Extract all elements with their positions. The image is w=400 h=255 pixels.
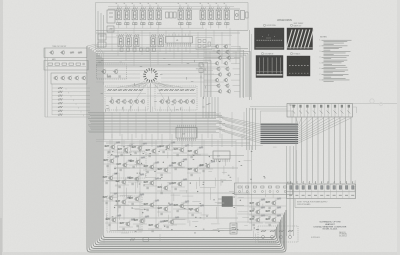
transistor Q48 bbox=[216, 67, 220, 72]
indicator lamp PL2 bbox=[241, 11, 249, 20]
wire bbox=[247, 108, 256, 150]
transistor Q70 bbox=[143, 162, 159, 174]
wire bbox=[237, 198, 286, 230]
filter block box bbox=[107, 196, 142, 232]
wire bbox=[112, 134, 242, 147]
decoder block box B bbox=[155, 86, 197, 110]
transistor Q7 bbox=[179, 20, 183, 28]
transistor Q47 bbox=[223, 61, 227, 66]
display digit DS4 bbox=[140, 7, 146, 20]
transistor Q89 bbox=[119, 219, 135, 231]
wire bbox=[204, 62, 240, 64]
wire bbox=[203, 97, 218, 118]
wire bbox=[121, 47, 186, 52]
label TYPICAL bbox=[289, 104, 297, 107]
transistor Q65 bbox=[173, 145, 189, 157]
transistor Q6 bbox=[157, 20, 161, 28]
wire bbox=[106, 37, 119, 44]
transistor Q9 bbox=[201, 20, 205, 28]
wire bbox=[96, 3, 249, 51]
wire bbox=[117, 83, 183, 113]
resistor R11 bbox=[113, 89, 117, 91]
oscillogram photo C bbox=[256, 56, 283, 78]
wire bbox=[250, 30, 252, 100]
wire bbox=[204, 85, 240, 87]
transformer T1 bbox=[218, 197, 233, 207]
transistor Q83 bbox=[128, 194, 144, 206]
transistor Q68 bbox=[116, 160, 132, 172]
junction boxes bbox=[199, 63, 203, 73]
photo label B bbox=[290, 23, 303, 27]
transistor Q95 bbox=[249, 207, 265, 219]
transistor array Q12-Q17 bbox=[120, 48, 156, 51]
wire bbox=[96, 45, 231, 83]
transistor Q44 bbox=[217, 55, 221, 60]
thyristor Q29 bbox=[178, 99, 183, 104]
transistor Q18 bbox=[101, 69, 106, 74]
transistor Q43 bbox=[225, 50, 229, 55]
resistor R76 bbox=[76, 63, 81, 65]
transistor Q90 bbox=[133, 216, 149, 228]
transistor Q3 bbox=[133, 20, 137, 28]
label vertical note bbox=[354, 179, 357, 192]
transistor Q42 bbox=[216, 50, 220, 55]
wire bbox=[204, 46, 240, 48]
transistor Q51 bbox=[60, 50, 64, 55]
resistor R75 bbox=[69, 63, 74, 65]
transistor Q53 bbox=[223, 78, 227, 83]
display digit DS1 bbox=[116, 7, 122, 20]
wiring harness bundle bbox=[87, 46, 286, 252]
thyristor Q25 bbox=[140, 99, 145, 104]
display digit DS10 bbox=[208, 7, 214, 20]
decoder block box A bbox=[105, 86, 148, 110]
resistor R13 bbox=[123, 89, 127, 91]
transistor Q81 bbox=[102, 193, 118, 205]
wire bbox=[240, 46, 244, 98]
transistor Q91 bbox=[148, 221, 164, 233]
audio block box 3 bbox=[51, 73, 87, 84]
transistor Q55 bbox=[225, 83, 229, 88]
thyristor Q20 bbox=[109, 99, 114, 104]
wire bbox=[96, 52, 251, 98]
wire bbox=[204, 79, 240, 81]
wire bbox=[107, 145, 277, 231]
transistor Q97 bbox=[249, 215, 265, 227]
smudge mark bbox=[370, 99, 383, 106]
label WAVEFORMS bbox=[277, 19, 292, 22]
transistor Q80 bbox=[171, 179, 187, 191]
wire bbox=[106, 140, 250, 232]
counter IC U13 bbox=[98, 34, 106, 40]
resistor R15 bbox=[134, 89, 138, 91]
transistor Q93 bbox=[249, 199, 265, 211]
transistor Q54 bbox=[216, 83, 220, 88]
wire bbox=[96, 32, 240, 34]
transistor Q11 bbox=[217, 20, 221, 28]
transistor Q94 bbox=[265, 198, 281, 210]
thyristor Q31 bbox=[190, 99, 195, 104]
wire bbox=[110, 28, 232, 35]
transistor Q87 bbox=[188, 205, 204, 217]
wire bbox=[204, 68, 240, 70]
transistor Q55 bbox=[74, 76, 79, 81]
photo label A bbox=[263, 24, 276, 27]
thyristor Q28 bbox=[171, 99, 176, 104]
wire bbox=[106, 93, 196, 95]
transistor Q67 bbox=[103, 156, 119, 168]
transistor Q73 bbox=[187, 165, 203, 177]
transistor Q54 bbox=[67, 76, 72, 81]
transistor Q12 bbox=[225, 20, 229, 28]
thyristor Q26 bbox=[159, 99, 164, 104]
oscillator block box bbox=[97, 62, 127, 79]
counter IC U14 bbox=[98, 42, 106, 47]
wire bbox=[204, 57, 240, 59]
transistor Q71 bbox=[157, 165, 173, 177]
resistor R74 bbox=[62, 63, 67, 65]
value labels bbox=[112, 149, 266, 233]
display digit DS12 bbox=[224, 7, 230, 20]
wire bbox=[108, 7, 240, 10]
display digit DS16 bbox=[151, 34, 157, 47]
wire bbox=[204, 74, 240, 76]
transistor Q88 bbox=[105, 215, 121, 227]
transistor Q19 bbox=[113, 69, 118, 74]
notes text block bbox=[320, 37, 352, 82]
resistor R25 bbox=[185, 89, 189, 91]
transistor Q75 bbox=[102, 173, 118, 185]
component stubs bbox=[100, 59, 210, 112]
wire bbox=[106, 88, 196, 97]
wire bbox=[96, 140, 252, 142]
wire bbox=[87, 44, 104, 58]
transistor Q49 bbox=[225, 67, 229, 72]
transistor Q85 bbox=[157, 204, 173, 216]
transistor Q10 bbox=[209, 20, 213, 28]
resistor R12 bbox=[118, 89, 122, 91]
node labels top row bbox=[116, 3, 227, 9]
resistor R20 bbox=[159, 89, 163, 91]
transistor Q82 bbox=[115, 197, 131, 209]
oscillogram photo A bbox=[255, 28, 285, 50]
transistor Q52 bbox=[53, 76, 58, 81]
display digit DS8 bbox=[186, 7, 192, 20]
oscillogram photo D bbox=[287, 56, 310, 76]
integrator block box bbox=[108, 152, 146, 178]
note text line bbox=[297, 200, 328, 205]
wire bbox=[110, 143, 268, 244]
wire bbox=[204, 48, 210, 97]
transistor Q84 bbox=[143, 200, 159, 212]
resistor R16 bbox=[139, 89, 143, 91]
display digit DS5 bbox=[148, 7, 154, 20]
transistor Q92 bbox=[163, 217, 179, 229]
title text bbox=[314, 221, 347, 231]
thyristor Q24 bbox=[134, 99, 139, 104]
transistor Q66 bbox=[187, 147, 203, 159]
display digit DS9 bbox=[200, 7, 206, 20]
resistor R24 bbox=[180, 89, 184, 91]
transistor Q40 bbox=[214, 44, 218, 49]
wire bbox=[96, 49, 248, 51]
transistor Q62 bbox=[131, 143, 147, 155]
terminal strip TS1 bbox=[287, 181, 356, 199]
wire bbox=[204, 51, 240, 53]
display digit DS14 bbox=[126, 34, 132, 47]
wire bbox=[96, 30, 248, 32]
resistor R1 bbox=[107, 76, 111, 78]
display digit DS13 bbox=[118, 34, 124, 47]
capacitor C1 bbox=[107, 26, 114, 32]
transistor Q76 bbox=[115, 177, 131, 189]
display digit DS17 bbox=[158, 34, 164, 47]
wire bbox=[98, 11, 104, 48]
display digit DS6 bbox=[156, 7, 162, 20]
transistor Q2 bbox=[125, 20, 129, 28]
transistor Q4 bbox=[141, 20, 145, 28]
title block small text bbox=[339, 231, 347, 238]
display digit DS2 bbox=[124, 7, 130, 20]
wire bbox=[132, 45, 168, 112]
resistor R22 bbox=[169, 89, 173, 91]
thyristor Q21 bbox=[115, 99, 120, 104]
display digit DS15 bbox=[134, 34, 140, 47]
junction dots bbox=[111, 146, 254, 230]
transistor Q56 bbox=[217, 89, 221, 94]
resistor R23 bbox=[175, 89, 179, 91]
wire bbox=[45, 116, 90, 118]
transistor Q98 bbox=[265, 215, 281, 227]
wire bbox=[353, 103, 397, 105]
audio block box 2 bbox=[44, 61, 88, 71]
wire bbox=[109, 107, 189, 112]
IC U2 bbox=[176, 125, 197, 142]
resistor ladder rows bbox=[52, 87, 90, 116]
transistor Q56 bbox=[81, 76, 86, 81]
transistor Q46 bbox=[214, 61, 218, 66]
resistor R73 bbox=[55, 63, 60, 65]
wire bbox=[104, 112, 244, 140]
wire bbox=[104, 234, 160, 243]
resistor R21 bbox=[164, 89, 168, 91]
transistor Q63 bbox=[145, 146, 161, 158]
transistor Q8 bbox=[187, 20, 191, 28]
transistor Q79 bbox=[157, 183, 173, 195]
display digit DS3 bbox=[132, 7, 138, 20]
resistor R71 bbox=[78, 52, 82, 54]
photo label D bbox=[290, 53, 300, 56]
IC U3 bbox=[213, 151, 230, 162]
wire bbox=[250, 107, 357, 114]
label audio 2 bbox=[52, 58, 56, 61]
label tone oscillator bbox=[52, 46, 66, 48]
ribbon cable W1 bbox=[261, 124, 299, 143]
display digit DS11 bbox=[216, 7, 222, 20]
transistor Q53 bbox=[60, 76, 65, 81]
audio block box 1 bbox=[44, 48, 87, 58]
label terminal strip bbox=[287, 181, 290, 184]
resistor R14 bbox=[128, 89, 132, 91]
wire bbox=[296, 118, 351, 143]
transistor Q45 bbox=[226, 55, 230, 60]
transistor Q74 bbox=[199, 161, 215, 173]
transistor Q69 bbox=[129, 157, 145, 169]
transistor Q77 bbox=[128, 174, 144, 186]
transistor Q61 bbox=[117, 145, 133, 157]
resistor R80 bbox=[124, 239, 142, 241]
transistor Q86 bbox=[173, 201, 189, 213]
transistor Q50 bbox=[217, 72, 221, 77]
thyristor Q22 bbox=[121, 99, 126, 104]
transistor Q41 bbox=[223, 44, 227, 49]
IC U1 bbox=[166, 34, 193, 47]
oscillogram photo B bbox=[287, 28, 314, 50]
wire bbox=[210, 52, 236, 65]
display digit DS7 bbox=[178, 7, 184, 20]
comparator parts row bbox=[238, 186, 287, 193]
wire bbox=[216, 116, 261, 144]
transistor Q52 bbox=[214, 78, 218, 83]
wire bbox=[204, 90, 240, 92]
capacitor C10 bbox=[83, 63, 84, 65]
transistor Q50 bbox=[49, 50, 53, 55]
thyristor Q23 bbox=[128, 99, 133, 104]
transistor Q72 bbox=[171, 159, 187, 171]
resistor pack RP1 bbox=[166, 12, 177, 18]
wire bbox=[45, 48, 52, 117]
wire bbox=[296, 117, 351, 183]
wire bbox=[46, 66, 86, 68]
transistor Q51 bbox=[226, 72, 230, 77]
latch IC U15 bbox=[196, 38, 212, 50]
regulator parts bbox=[261, 230, 293, 239]
resistor R70 bbox=[70, 52, 74, 54]
regulator IC U12 bbox=[107, 10, 115, 23]
capacitor C20 bbox=[143, 238, 149, 242]
choke L1 bbox=[230, 223, 237, 234]
transistor Q5 bbox=[149, 20, 153, 28]
resistor R26 bbox=[190, 89, 194, 91]
transistor Q60 bbox=[104, 142, 120, 154]
signal bus wires bbox=[88, 113, 225, 133]
relay contact strip K1 bbox=[287, 104, 353, 118]
wire bbox=[287, 146, 297, 236]
comparator block box bbox=[235, 183, 293, 195]
drawing number bbox=[311, 237, 320, 239]
circuit board outline bbox=[118, 146, 252, 231]
rotary switch S1 bbox=[143, 68, 158, 83]
transistor Q64 bbox=[159, 142, 175, 154]
transistor Q96 bbox=[265, 207, 281, 219]
transistor Q1 bbox=[117, 20, 121, 28]
junction box outline bbox=[261, 111, 293, 124]
wire bbox=[295, 199, 341, 208]
resistor R72 bbox=[48, 63, 53, 65]
wire bbox=[112, 28, 238, 66]
regulator block box bbox=[258, 226, 298, 242]
thyristor Q30 bbox=[184, 99, 189, 104]
thyristor Q27 bbox=[165, 99, 170, 104]
capacitor C2 bbox=[119, 75, 120, 77]
resistor R10 bbox=[108, 89, 112, 91]
indicator lamp PL1 bbox=[235, 11, 240, 20]
transistor Q78 bbox=[143, 178, 159, 190]
photo label C bbox=[261, 53, 273, 56]
transistor Q57 bbox=[226, 89, 230, 94]
